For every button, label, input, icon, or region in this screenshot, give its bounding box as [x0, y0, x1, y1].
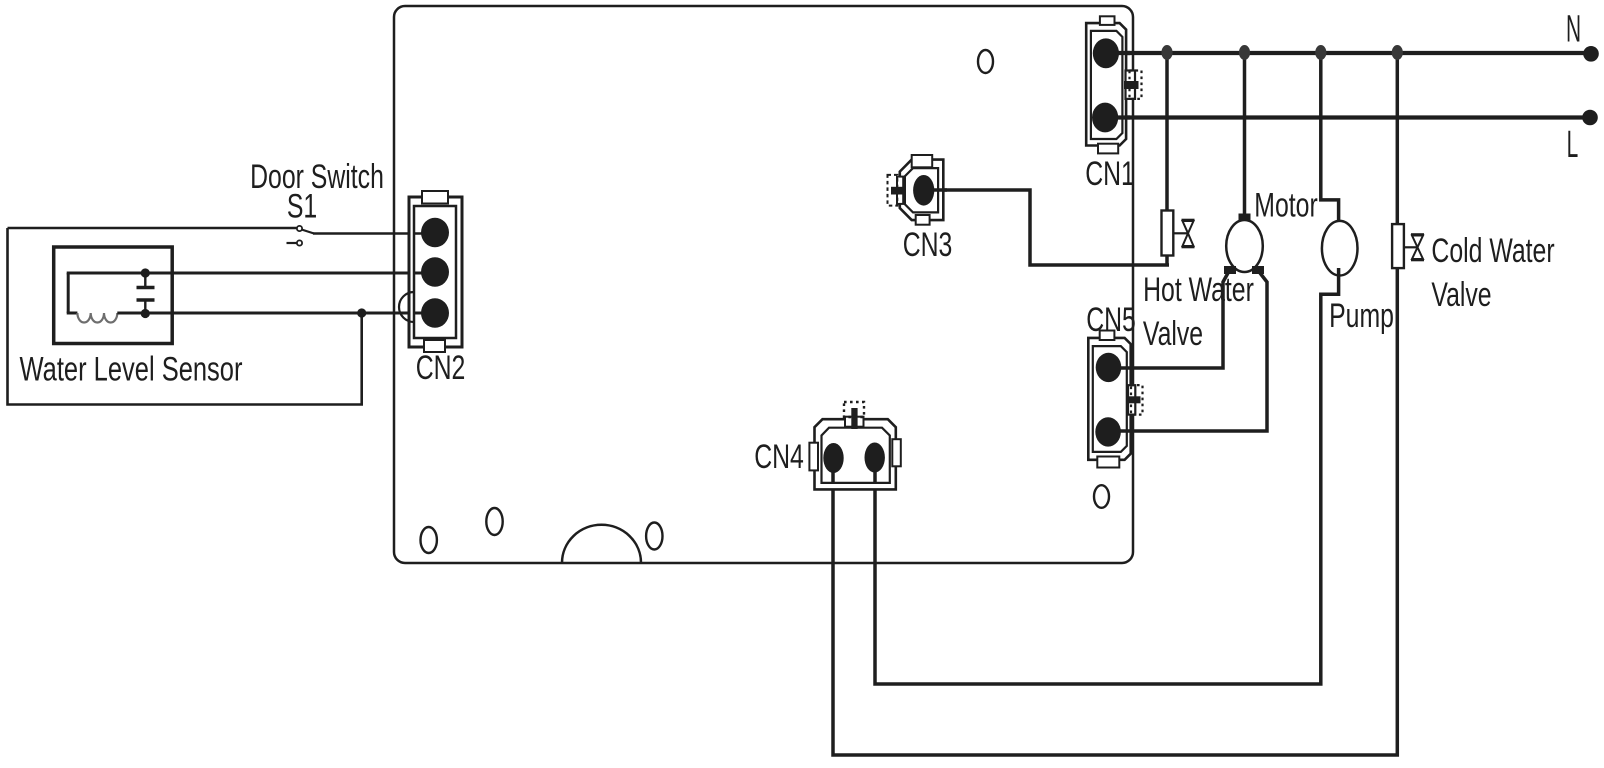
CN4 pin 2	[865, 443, 885, 473]
connector CN5 body inner	[1093, 346, 1127, 452]
CN2 polarization notch	[399, 292, 414, 322]
CN5 latch dashed box	[1131, 385, 1143, 415]
mounting hole bottom-middle	[646, 523, 662, 550]
wire stub into CN2 pin2	[414, 272, 435, 275]
wire motor bottom-right to CN5 pin2	[1108, 273, 1267, 431]
wire motor bottom-left to CN5 pin1	[1108, 273, 1228, 368]
CN3 top tab	[912, 155, 933, 167]
capacitor plate 1	[137, 286, 155, 290]
svg-text:Valve: Valve	[1143, 315, 1203, 353]
wire L line from CN1 pin2 to L terminal	[1106, 115, 1590, 119]
svg-text:Cold Water: Cold Water	[1431, 232, 1554, 270]
CN2 top tab	[422, 191, 448, 204]
CN1 latch black bar	[1124, 81, 1139, 89]
wire sensor internal left vertical	[67, 273, 70, 313]
CN1 pin 2	[1092, 103, 1118, 133]
water level sensor box	[54, 247, 173, 344]
mounting hole below CN5	[1094, 485, 1109, 508]
door switch S1 arm	[302, 230, 315, 234]
wire stub into CN2 pin1	[414, 232, 435, 234]
capacitor plate 2	[137, 298, 155, 302]
svg-text:Hot Water: Hot Water	[1143, 271, 1254, 309]
svg-text:Valve: Valve	[1431, 276, 1491, 314]
CN2 pin 3	[421, 298, 449, 328]
junction dot N line / hot valve	[1161, 45, 1172, 60]
svg-text:CN4: CN4	[754, 438, 804, 476]
CN4 left tab	[809, 443, 818, 471]
CN3 latch dashed box	[888, 175, 898, 206]
door switch S1 contact 2	[297, 240, 302, 245]
junction dot sensor bottom wire	[357, 308, 366, 317]
svg-text:CN5: CN5	[1086, 301, 1136, 339]
wire stub into CN2 pin3	[414, 312, 435, 315]
N terminal dot	[1583, 46, 1599, 62]
wire stub CN3 pin to board edge	[923, 188, 947, 192]
wire N line from CN1 pin1 to N terminal	[1106, 51, 1591, 55]
CN2 pin 2	[421, 257, 449, 287]
CN5 latch black bar	[1127, 396, 1141, 403]
motor top terminal	[1239, 214, 1251, 222]
CN3 latch rect	[897, 177, 903, 204]
CN4 latch white tab	[845, 417, 864, 427]
junction dot N line / pump	[1315, 45, 1326, 60]
svg-text:L: L	[1567, 123, 1579, 165]
svg-text:Water Level Sensor: Water Level Sensor	[20, 351, 243, 388]
wire cold water valve drop from N line	[1396, 53, 1400, 226]
cold water valve coil	[1392, 224, 1404, 268]
connector CN1 body outer	[1086, 23, 1126, 145]
svg-text:CN3: CN3	[903, 226, 953, 264]
wire pump bottom to CN4 pin2	[875, 268, 1339, 684]
wire stub CN4 pin2	[873, 457, 877, 483]
connector CN5 body outer	[1088, 338, 1130, 460]
mounting hole bottom-left 2	[486, 508, 502, 535]
connector CN3 body inner	[905, 168, 938, 212]
wire hot water valve drop from N line	[1165, 53, 1169, 211]
connector CN1 body inner	[1091, 31, 1123, 139]
wire sensor bottom run to CN2 pin3	[67, 312, 78, 315]
CN4 pin 1	[823, 443, 843, 473]
connector CN2 body inner	[414, 206, 456, 338]
control board PCB outline	[394, 6, 1133, 563]
wire cold water valve to CN4 pin1	[833, 268, 1397, 755]
connector CN3 body outer	[900, 160, 944, 221]
wire sensor top run to CN2 pin2	[67, 272, 435, 275]
wire water level sensor loop (left, bottom, right to junction)	[8, 228, 362, 405]
hot water valve coil	[1162, 211, 1174, 256]
CN5 top tab	[1100, 331, 1115, 341]
CN1 pin 1	[1093, 38, 1119, 68]
wire from CN3 to hot water valve	[930, 190, 1169, 265]
CN5 latch rect	[1128, 385, 1135, 414]
mounting hole near CN1	[978, 50, 993, 73]
wire stub CN4 pin1	[831, 457, 835, 483]
door switch S1 contact 1	[297, 226, 302, 231]
connector CN4 body outer	[815, 419, 896, 489]
CN3 pin 1	[913, 175, 934, 206]
wire stub CN5 pin1	[1108, 366, 1130, 370]
motor bottom-left terminal	[1224, 266, 1236, 274]
svg-text:Motor: Motor	[1254, 187, 1317, 225]
svg-text:CN1: CN1	[1085, 155, 1135, 193]
CN5 bottom tab	[1097, 457, 1119, 468]
CN3 latch black bar	[891, 187, 906, 195]
cold water valve symbol bowtie	[1411, 235, 1424, 261]
motor M1 body	[1226, 220, 1263, 272]
CN1 latch rect	[1126, 71, 1136, 99]
inductor coil in sensor	[77, 313, 117, 323]
cold water valve symbol stem	[1404, 246, 1418, 248]
board edge notch arc	[562, 525, 641, 563]
CN1 bottom tab	[1098, 144, 1118, 154]
wire door switch feed	[8, 227, 297, 230]
hot water valve symbol stem	[1174, 232, 1188, 234]
CN5 pin 1	[1096, 353, 1122, 382]
connector CN4 body inner	[822, 428, 890, 483]
wire hot water valve coil bottom stub	[1165, 255, 1169, 265]
CN3 bottom tab	[916, 215, 930, 225]
svg-text:CN2: CN2	[416, 349, 466, 387]
svg-text:N: N	[1566, 8, 1581, 50]
pump body	[1322, 221, 1358, 276]
CN1 latch dashed box	[1130, 71, 1142, 99]
CN2 pin 1	[421, 218, 449, 248]
CN4 latch dashed box	[844, 402, 864, 417]
capacitor node dot top	[141, 268, 150, 277]
junction dot N line / motor	[1239, 45, 1250, 60]
mounting hole bottom-left	[421, 527, 437, 553]
CN5 pin 2	[1095, 417, 1121, 446]
door switch S1 lower contact stub	[287, 242, 297, 244]
hot water valve symbol bowtie	[1182, 220, 1195, 247]
svg-text:Pump: Pump	[1329, 297, 1394, 335]
L terminal dot	[1582, 110, 1598, 126]
junction dot N line / cold valve	[1392, 45, 1403, 60]
capacitor bottom lead	[144, 302, 146, 314]
wire stub CN5 pin2	[1108, 429, 1130, 433]
CN4 right tab	[892, 439, 901, 466]
capacitor node dot bottom	[141, 309, 150, 318]
motor bottom-right terminal	[1252, 266, 1264, 274]
connector CN2 body outer	[409, 197, 462, 347]
wire stub CN1 pin1 to N line	[1106, 51, 1130, 55]
wire sensor bottom run continued	[117, 312, 435, 315]
capacitor top lead	[144, 273, 146, 286]
CN4 latch black bar	[851, 408, 857, 429]
wire motor drop from N line	[1243, 53, 1247, 215]
wire stub CN1 pin2 to L line	[1105, 115, 1130, 119]
wire door switch to CN2 pin1	[313, 232, 435, 234]
wire pump drop from N line	[1321, 53, 1339, 229]
CN2 bottom tab	[424, 340, 445, 352]
svg-text:S1: S1	[287, 188, 317, 226]
CN1 top tab	[1100, 16, 1115, 25]
